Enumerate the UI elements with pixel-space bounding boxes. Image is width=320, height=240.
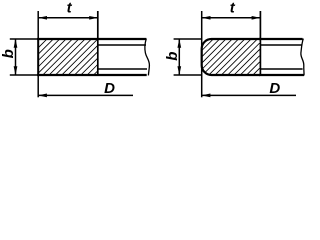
b dimension line (right fig) [177,39,181,75]
svg-text:b: b [0,49,17,58]
b extension line bottom (right fig) [174,74,202,76]
t dimension line (left fig) [38,16,98,20]
label t (left fig) [67,0,73,17]
chamfer line top (right fig) [260,44,301,46]
b extension line top (right fig) [174,38,202,40]
break line (right end of key K2) [301,39,304,76]
svg-text:D: D [269,80,280,97]
break line (right end of key K1) [145,39,150,76]
section divider / t extension line right (right fig) [259,11,261,75]
chamfer line top (side view) [98,44,146,46]
key K1 left edge (thick) [37,38,39,76]
label D (left fig) [104,80,115,97]
hatching (section of key K1) [11,39,130,75]
key K1 bottom edge [37,74,147,76]
svg-text:D: D [104,80,115,97]
hatching (section of key K2) [171,39,295,75]
chamfer line bottom (right fig) [260,68,302,70]
label D (right fig) [269,80,280,97]
label b (right fig) [164,52,181,61]
label t (right fig) [230,0,236,17]
svg-text:b: b [164,52,181,61]
t dimension line (right fig) [202,16,261,20]
section divider / t extension line right [97,11,99,75]
b dimension line (left fig) [14,39,18,75]
key K2 top edge (side view part) [259,38,303,40]
D dimension line (right fig) [201,94,296,98]
label b (left fig) [0,49,17,58]
key K1 top edge [37,38,146,40]
wire: left vertical line (t extension / D extension, right fig) [201,11,203,97]
key K2 rounded left end outline (thick) [202,39,260,75]
chamfer line bottom (side view) [98,68,147,70]
b extension line top (left fig) [10,38,38,40]
b extension line bottom (left fig) [10,74,38,76]
key K2 bottom edge (side view part) [259,74,304,76]
D dimension line (left fig) [38,94,133,98]
wire: left vertical line (t extension / key left edge / D extension) [37,11,39,97]
